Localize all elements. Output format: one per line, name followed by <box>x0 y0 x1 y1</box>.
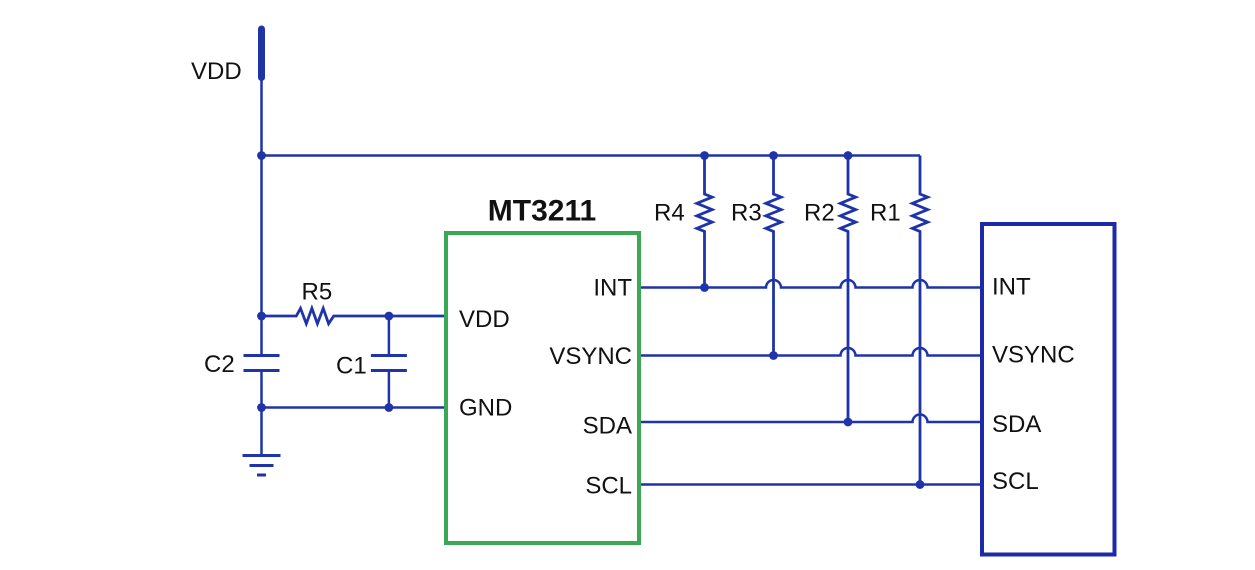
svg-text:R5: R5 <box>302 279 333 306</box>
junction node R4/INT <box>700 283 709 292</box>
svg-text:INT: INT <box>593 275 632 302</box>
junction node rail/R2 <box>844 151 853 160</box>
wire VSYNC row with hops over R2,R1 <box>641 348 980 356</box>
svg-text:SCL: SCL <box>585 473 632 500</box>
wire GND row to GND pin <box>262 406 445 409</box>
junction node rail/R3 <box>769 151 778 160</box>
resistor R2 branch (zigzag) <box>840 156 855 423</box>
svg-text:SDA: SDA <box>992 411 1041 438</box>
junction node R1/SCL <box>916 480 925 489</box>
svg-text:INT: INT <box>992 274 1031 301</box>
svg-text:VSYNC: VSYNC <box>992 342 1075 369</box>
junction node R3/VSYNC <box>769 351 778 360</box>
wire SCL row <box>641 483 980 486</box>
svg-text:R1: R1 <box>870 200 901 227</box>
svg-text:R3: R3 <box>731 200 762 227</box>
wire below C2 to GND row <box>260 371 263 408</box>
host connector box <box>982 224 1115 555</box>
wire C1 top lead <box>388 316 391 356</box>
resistor R4 branch (zigzag) <box>697 156 712 288</box>
junction node VDD net / R5 <box>257 312 266 321</box>
ground symbol <box>243 454 281 457</box>
svg-text:C1: C1 <box>336 353 367 380</box>
resistor R5 (horizontal zigzag) with wire to VDD pin <box>262 308 445 323</box>
resistor R3 branch (zigzag) <box>766 156 781 356</box>
resistor R1 branch (zigzag) <box>912 156 927 485</box>
junction node C1 bottom <box>385 403 394 412</box>
junction node R2/SDA <box>844 418 853 427</box>
junction node GND net left <box>257 403 266 412</box>
wire VDD drop (vertical from VDD bar to C2 top plate) <box>260 78 263 356</box>
svg-text:VDD: VDD <box>191 58 242 85</box>
svg-text:GND: GND <box>459 395 512 422</box>
wire INT row with hops over R3,R2,R1 <box>641 280 980 287</box>
svg-text:C2: C2 <box>204 351 235 378</box>
junction node rail/R4 <box>700 151 709 160</box>
capacitor C1 plates <box>371 354 407 357</box>
wire SDA row with hop over R1 <box>641 415 980 422</box>
svg-text:SDA: SDA <box>583 413 632 440</box>
svg-text:R2: R2 <box>804 200 835 227</box>
wire top VDD rail <box>262 154 921 157</box>
wire C1 bottom lead <box>388 371 391 408</box>
wire ground stem <box>260 408 263 456</box>
capacitor C2 plates <box>244 354 280 357</box>
svg-text:R4: R4 <box>654 200 685 227</box>
svg-text:SCL: SCL <box>992 468 1039 495</box>
op IC U1 MT3211 box <box>446 233 639 543</box>
svg-text:MT3211: MT3211 <box>488 195 596 228</box>
svg-text:VDD: VDD <box>459 306 510 333</box>
svg-text:VSYNC: VSYNC <box>549 343 632 370</box>
junction node on vertical at top rail <box>257 151 266 160</box>
junction node C1 top <box>385 312 394 321</box>
VDD power bar symbol <box>258 29 265 78</box>
